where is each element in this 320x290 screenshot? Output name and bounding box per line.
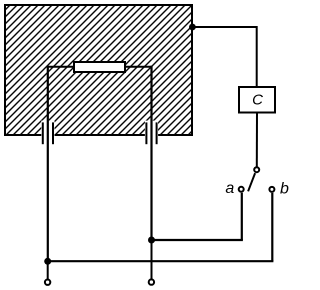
wire down to capacitor C xyxy=(256,26,258,88)
junction dot right xyxy=(148,237,155,244)
shielded enclosure (hatched box) xyxy=(5,5,192,135)
wire inner loop top-right xyxy=(125,66,153,68)
svg-text:a: a xyxy=(225,180,234,197)
wire b-branch horizontal xyxy=(48,260,274,262)
wire enclosure to top-right corner xyxy=(192,26,257,28)
wire right vertical (inner loop to junction) xyxy=(150,66,152,240)
svg-text:C: C xyxy=(252,91,263,108)
terminal left xyxy=(45,280,50,285)
feedthrough gap right xyxy=(145,121,158,146)
junction dot left xyxy=(44,258,51,265)
contact a xyxy=(239,187,244,192)
terminal right xyxy=(149,279,154,284)
contact b xyxy=(269,187,274,192)
bushing insulator right-inner xyxy=(145,122,147,144)
resistor R xyxy=(74,62,125,72)
wire left vertical (inner loop to bottom junction) xyxy=(47,66,49,261)
bushing insulator right-outer xyxy=(156,122,158,144)
wire C to switch pivot xyxy=(256,113,258,167)
wire contact b down xyxy=(271,193,273,261)
switch pivot contact xyxy=(254,167,259,172)
wire left junction to terminal xyxy=(47,261,49,279)
bushing insulator left-outer xyxy=(42,122,44,144)
bushing insulator left-inner xyxy=(52,122,54,144)
wire contact a down xyxy=(241,193,243,240)
wire a-branch horizontal xyxy=(152,239,243,241)
junction dot on enclosure right edge xyxy=(189,24,196,31)
capacitor C box xyxy=(239,87,275,113)
feedthrough gap left xyxy=(41,121,54,146)
wire right junction to terminal xyxy=(151,240,153,279)
switch lever xyxy=(248,173,255,191)
svg-text:b: b xyxy=(280,181,289,198)
wire inner loop top-left xyxy=(47,66,75,68)
